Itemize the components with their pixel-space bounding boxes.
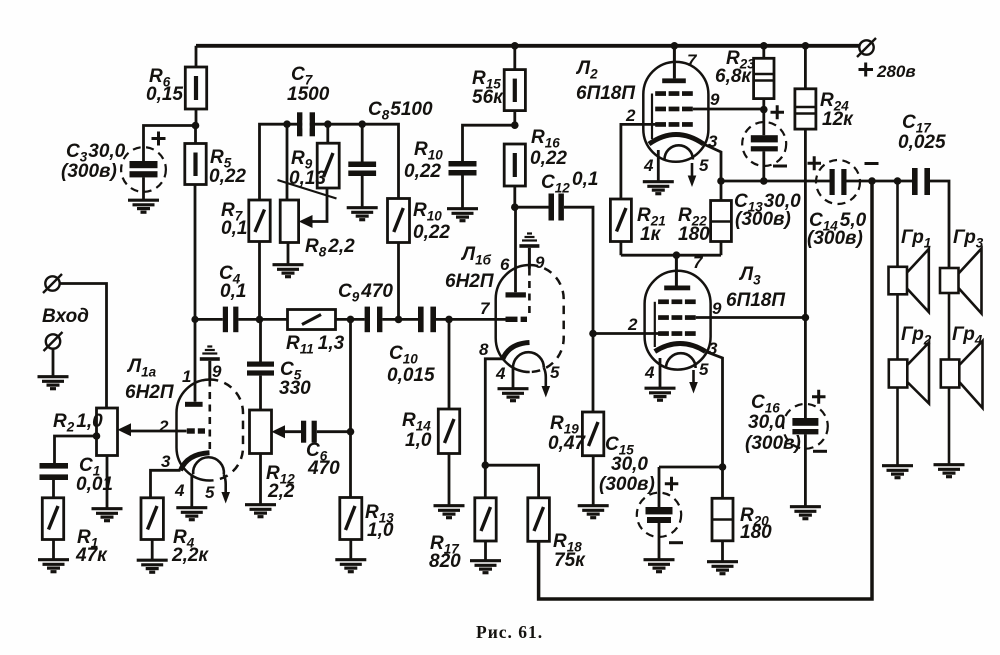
ground Gr2: [882, 466, 913, 478]
tube L1a cathode: [181, 453, 210, 471]
tube L1a envelope: [176, 380, 243, 481]
capacitor C3 electrolytic: [121, 132, 166, 200]
wire junction to L3 grid: [593, 332, 659, 335]
svg-text:5: 5: [550, 363, 560, 382]
tube L1b cathode: [503, 343, 530, 360]
node L3 anode junction: [673, 251, 681, 259]
ground C16: [790, 507, 821, 519]
svg-text:0,1: 0,1: [220, 281, 246, 302]
potentiometer R2: [97, 408, 132, 508]
wire R2 to C1: [55, 436, 97, 463]
label +280в: [859, 63, 874, 77]
tube L2 grid rows: [655, 91, 693, 127]
tube L2 heater: [665, 145, 693, 159]
resistor R24: [795, 46, 816, 418]
node pin8/R17/R18 junction: [482, 461, 490, 469]
node R11/C9/R13: [347, 316, 355, 324]
svg-text:0,01: 0,01: [76, 474, 113, 495]
node anode/C4: [191, 316, 198, 323]
svg-text:6Н2П: 6Н2П: [445, 271, 494, 292]
svg-text:56к: 56к: [472, 87, 504, 108]
tube L3 cathode: [655, 344, 706, 352]
tube L1b grid dashes: [506, 317, 528, 322]
svg-text:(300в): (300в): [807, 228, 863, 249]
svg-text:5: 5: [205, 483, 215, 502]
wire C12 to L3 grid: [564, 207, 593, 333]
tube L1b shield pin9 symbol: [519, 234, 539, 318]
capacitor C16 electrolytic: [783, 390, 828, 506]
ground R2: [92, 509, 123, 521]
svg-text:0,15: 0,15: [146, 84, 183, 105]
potentiometer R12: [250, 410, 286, 504]
resistor R6: [185, 46, 206, 126]
wire L2 g3 tie: [651, 94, 653, 140]
wire R2 wiper to L1a grid: [130, 430, 187, 433]
wire junction to bypass cap: [463, 125, 515, 161]
capacitor C17: [912, 168, 949, 268]
resistor R13: [340, 319, 362, 559]
wire output node: [721, 180, 830, 183]
resistor R8 potentiometer: [280, 124, 327, 264]
wire output to speakers: [847, 180, 913, 183]
speaker Gr2: [889, 294, 929, 465]
resistor R18: [528, 498, 550, 542]
svg-text:0,025: 0,025: [898, 132, 946, 153]
svg-text:C9470: C9470: [338, 281, 393, 305]
svg-text:9: 9: [712, 299, 722, 318]
svg-text:0,22: 0,22: [209, 166, 246, 187]
svg-text:47к: 47к: [75, 545, 108, 566]
capacitor C5: [247, 319, 274, 410]
svg-text:8: 8: [479, 340, 489, 359]
speaker Gr4: [941, 293, 983, 464]
wire L2 cathode pin3 to output node: [704, 144, 722, 181]
ground Gr4: [934, 465, 965, 477]
ground bypass cap: [447, 209, 478, 221]
svg-text:5: 5: [699, 360, 709, 379]
ground L1a pin4: [176, 508, 207, 520]
svg-text:4: 4: [644, 363, 655, 382]
node C8 tap: [358, 120, 366, 128]
svg-text:2,2: 2,2: [267, 481, 295, 502]
wire R21/R22 bottom to L3 anode: [621, 254, 721, 257]
node bus R23: [760, 42, 768, 50]
capacitor C9: [365, 307, 383, 333]
wire +280v top supply bus: [196, 44, 860, 48]
node R8 tap: [283, 120, 291, 128]
wire L2 screen pin9 to R23 node: [693, 108, 764, 111]
svg-text:(300в): (300в): [599, 474, 655, 495]
node R23/screen/C13: [760, 106, 768, 114]
node C6/R13: [347, 428, 355, 436]
svg-text:2: 2: [158, 417, 169, 436]
capacitor C13 electrolytic: [742, 105, 787, 181]
node R10/C9: [395, 316, 403, 324]
speaker Gr1: [889, 181, 929, 312]
tube L1a heater: [193, 457, 224, 474]
svg-text:6П18П: 6П18П: [726, 290, 785, 311]
ground C3: [128, 200, 159, 212]
node C12/R19/grid junction: [589, 330, 597, 338]
svg-text:3: 3: [708, 339, 718, 358]
svg-text:4: 4: [643, 156, 654, 175]
tube L1a shield pin9 symbol: [200, 347, 220, 453]
svg-text:12к: 12к: [822, 109, 854, 130]
capacitor C8: [348, 124, 376, 207]
wire main signal line: [195, 318, 506, 321]
ground L3 pin4: [645, 388, 676, 400]
svg-text:(300в): (300в): [61, 161, 117, 182]
svg-text:4: 4: [174, 481, 185, 500]
wire L3 cathode pin3 to C15/R20 node: [706, 352, 723, 468]
terminal input lower: [44, 332, 63, 351]
svg-text:180: 180: [678, 224, 710, 245]
ground R20: [707, 562, 738, 574]
resistor R17: [475, 498, 496, 560]
node R9 tap: [324, 120, 332, 128]
node R6/R5/C3 junction: [192, 122, 200, 130]
resistor R22: [711, 181, 732, 255]
resistor R7: [249, 200, 270, 319]
ground R19: [578, 506, 609, 518]
svg-text:6,8к: 6,8к: [715, 66, 752, 87]
tube L2 anode: [662, 46, 686, 83]
wire L3 g3 tie: [654, 302, 656, 347]
resistor R10 anode: [388, 199, 410, 320]
wire input lower to ground: [52, 349, 55, 376]
tube L1b heater: [513, 352, 544, 368]
svg-text:9: 9: [535, 253, 545, 272]
tube L1b heater arrow pin5: [542, 368, 551, 398]
svg-text:0,015: 0,015: [387, 365, 435, 386]
svg-text:R21,0: R21,0: [53, 411, 103, 435]
svg-text:180: 180: [740, 522, 772, 543]
svg-text:3: 3: [161, 452, 171, 471]
resistor R5: [185, 126, 206, 185]
svg-text:9: 9: [212, 362, 222, 381]
ground input: [38, 377, 69, 389]
wire feedback bottom bus: [539, 181, 872, 599]
ground R17: [470, 561, 501, 573]
ground R8: [273, 265, 304, 277]
node feedback tap: [868, 177, 876, 185]
resistor R15: [504, 46, 525, 125]
svg-text:1500: 1500: [287, 84, 330, 105]
ground R4: [137, 560, 168, 572]
resistor R14: [438, 319, 459, 505]
svg-text:0,22: 0,22: [530, 148, 567, 169]
terminal +280v output: [857, 38, 876, 57]
svg-text:30,0: 30,0: [611, 454, 648, 475]
svg-text:330: 330: [279, 378, 311, 399]
svg-text:2: 2: [625, 106, 636, 125]
node R7/C5: [256, 316, 264, 324]
svg-text:6Н2П: 6Н2П: [125, 382, 174, 403]
svg-text:R82,2: R82,2: [305, 236, 355, 260]
capacitor C15 electrolytic: [637, 467, 723, 559]
terminal input upper: [43, 274, 62, 293]
wire L1b pin8 to R17/R18: [485, 359, 502, 498]
svg-text:470: 470: [307, 458, 340, 479]
node C10/R14: [445, 316, 453, 324]
svg-text:7: 7: [480, 299, 491, 318]
wire junction to C3: [144, 126, 196, 153]
node bus R24: [802, 42, 810, 50]
svg-text:0,13: 0,13: [289, 168, 326, 189]
resistor R4: [141, 498, 163, 560]
svg-text:0,47: 0,47: [548, 433, 586, 454]
node bus L2 anode: [671, 42, 679, 50]
tube L3 envelope: [645, 271, 711, 370]
svg-text:Вход: Вход: [42, 306, 89, 327]
ground C8: [347, 208, 378, 220]
node R24/L3 screen: [802, 314, 810, 322]
svg-text:820: 820: [429, 551, 461, 572]
tube L1b envelope: [496, 265, 564, 372]
svg-text:2: 2: [627, 315, 638, 334]
capacitor C12: [515, 194, 564, 221]
tube L2 pin4 ground lead: [657, 150, 660, 181]
ground R13: [335, 560, 366, 572]
capacitor bypass (R10 0,22 label): [449, 161, 477, 208]
ground R1: [38, 560, 69, 572]
svg-text:0,1: 0,1: [221, 218, 247, 239]
svg-text:7: 7: [687, 51, 698, 70]
svg-text:3: 3: [708, 132, 718, 151]
svg-text:75к: 75к: [554, 550, 586, 571]
wire junction to R18: [485, 465, 538, 498]
wire L1a cathode pin3 to R4: [151, 470, 181, 498]
resistor R11: [288, 310, 336, 330]
svg-text:1,0: 1,0: [405, 430, 432, 451]
tube L3 pin4 ground lead: [659, 358, 662, 388]
svg-text:0,22: 0,22: [413, 222, 450, 243]
capacitor C10: [418, 307, 436, 333]
resistor R16: [504, 144, 525, 207]
svg-text:0,1: 0,1: [572, 169, 598, 190]
node output/R22: [717, 177, 725, 185]
tube L1a heater arrow pin5: [221, 475, 230, 504]
node output/C13: [760, 177, 768, 185]
node R15/R16 junction: [511, 121, 519, 129]
svg-text:4: 4: [495, 364, 506, 383]
ground L2 pin4: [643, 182, 674, 194]
resistor R1: [42, 480, 63, 559]
svg-text:C85100: C85100: [368, 99, 433, 123]
wire C7 feedback rail: [260, 124, 399, 200]
svg-text:6П18П: 6П18П: [576, 83, 635, 104]
tube L1a pin4 ground lead: [190, 476, 193, 507]
tube L2 cathode: [649, 135, 704, 145]
svg-text:0,22: 0,22: [404, 161, 441, 182]
capacitor C7: [297, 112, 315, 136]
tube L1b anode lead: [506, 207, 526, 297]
svg-text:2,2к: 2,2к: [171, 545, 209, 566]
speaker Gr3: [940, 249, 982, 314]
svg-text:1к: 1к: [640, 224, 662, 245]
svg-text:5: 5: [699, 156, 709, 175]
svg-text:(300в): (300в): [745, 433, 801, 454]
svg-text:9: 9: [710, 90, 720, 109]
node C15/R20 junction: [719, 463, 727, 471]
svg-text:Рис. 61.: Рис. 61.: [476, 622, 543, 642]
svg-text:30,0: 30,0: [748, 412, 785, 433]
svg-text:(300в): (300в): [735, 209, 791, 230]
ground R12: [245, 505, 276, 517]
tube L3 heater: [666, 353, 696, 368]
wire input to R2: [60, 284, 107, 409]
node R2 wiper/C1: [93, 432, 101, 440]
tube L1b cathode pin4 ground lead: [512, 368, 515, 389]
node bus R15: [511, 42, 519, 50]
resistor R23: [754, 46, 774, 110]
ground C15: [644, 560, 675, 572]
capacitor C4: [223, 307, 239, 333]
wire L2 control grid pin2 to R21: [621, 124, 656, 199]
wire R5 to anode node (long vertical): [194, 185, 197, 402]
resistor R21: [610, 199, 631, 255]
svg-text:6: 6: [500, 255, 510, 274]
svg-text:1: 1: [182, 367, 191, 386]
wire R9 trimmer diagonal: [278, 180, 337, 199]
svg-text:280в: 280в: [876, 62, 916, 81]
tube L3 anode: [664, 255, 690, 290]
resistor R19: [582, 334, 603, 506]
tube L3 heater arrow pin5: [689, 370, 698, 394]
wire L3 screen pin9 to R24: [696, 316, 806, 319]
capacitor C14 electrolytic: [808, 156, 879, 204]
capacitor C6: [284, 421, 351, 443]
node Gr1 tap: [894, 177, 902, 185]
tube L1a grid dashes: [187, 428, 205, 433]
ground L1b pin4: [498, 389, 529, 401]
svg-text:1,0: 1,0: [367, 520, 394, 541]
resistor R20: [712, 467, 733, 561]
ground R14: [434, 506, 465, 518]
svg-text:7: 7: [693, 253, 704, 272]
capacitor C1: [40, 463, 69, 480]
resistor R9 trimmer: [317, 124, 339, 188]
tube L3 grid rows: [658, 299, 696, 336]
tube L2 envelope: [643, 62, 708, 162]
tube L2 heater arrow pin5: [688, 163, 697, 187]
tube L1a anode plate: [185, 402, 203, 407]
node R16/C12/anode junction: [511, 203, 519, 211]
